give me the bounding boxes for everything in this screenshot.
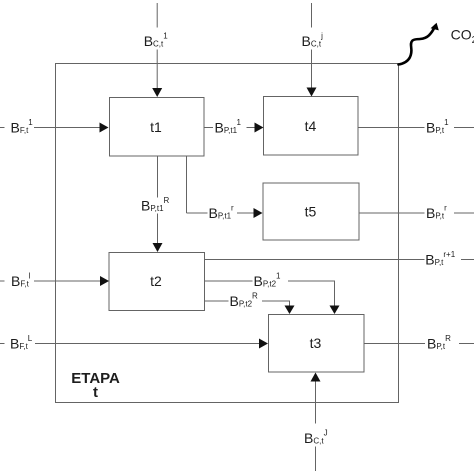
- wire feed into t1: [34, 127, 100, 129]
- arrowhead B_P,t2^R into t3: [285, 306, 295, 315]
- box t2: [109, 253, 205, 311]
- svg-text:t2: t2: [150, 273, 162, 289]
- wire label to t5: [237, 212, 254, 214]
- arrowhead B_P,t2^1 into t3: [330, 306, 340, 315]
- wire t3 right output: [364, 343, 425, 345]
- arrowhead into t4 top: [307, 88, 317, 97]
- wire B_F,t^1 stub at left edge: [0, 127, 5, 129]
- box t5: [263, 183, 359, 240]
- arrowhead into t1 left: [100, 123, 109, 133]
- wire t1 right to label: [204, 127, 213, 129]
- wire B_C,t^1 into t1: [156, 50, 158, 90]
- wire B_P,t^1 to right edge: [454, 127, 474, 129]
- arrowhead into t3 bottom: [311, 373, 321, 382]
- svg-text:t4: t4: [305, 118, 317, 134]
- wire B_P,t^r+1 to right edge: [461, 259, 474, 261]
- svg-text:t1: t1: [150, 119, 162, 135]
- arrowhead into t1 top: [152, 88, 162, 97]
- CO2 squiggle arrow: [399, 26, 436, 65]
- stage boundary box ETAPA t: [56, 64, 399, 403]
- svg-text:t: t: [93, 384, 98, 401]
- svg-text:t5: t5: [305, 204, 317, 220]
- wire B_F,t^l stub at left edge: [0, 280, 5, 282]
- wire t2 output to label B_P,t2^R: [205, 300, 229, 302]
- wire B_C,t^J lower segment: [315, 447, 317, 472]
- arrowhead into t2 left: [100, 276, 109, 286]
- wire B_P,t2^1 into t3 top: [288, 281, 335, 306]
- wire B_F,t^L stub at left edge: [0, 343, 5, 345]
- wire B_C,t^j into t4: [311, 50, 313, 89]
- wire t1 bottom branch down (x=186.5): [186, 156, 188, 213]
- wire recycle into t2 top: [157, 214, 159, 245]
- wire t5 right output: [359, 212, 425, 214]
- arrowhead into t2 top: [153, 243, 163, 252]
- box t4: [264, 97, 359, 156]
- wire t1 bottom recycle down (x=157.5): [157, 156, 159, 198]
- wire t2 output to label B_P,t2^1: [205, 280, 253, 282]
- wire label to t4: [247, 127, 256, 129]
- wire B_P,t^r to right edge: [454, 212, 474, 214]
- box t3: [269, 315, 365, 373]
- wire feed into t2: [34, 280, 101, 282]
- wire B_C,t^J rising into t3 bottom: [315, 381, 317, 424]
- wire B_P,t2^R into t3 top: [262, 301, 290, 306]
- wire t4 right output: [358, 127, 425, 129]
- arrowhead into t3 left: [259, 339, 268, 349]
- wire feed into t3: [35, 343, 260, 345]
- wire B_C,t^j from top edge: [311, 3, 313, 28]
- wire t2 output r+1 row: [205, 259, 425, 261]
- svg-text:t3: t3: [310, 335, 322, 351]
- wire branch to label B_P,t1^r: [187, 212, 208, 214]
- arrowhead into t4 left: [255, 123, 264, 133]
- CO2 arrowhead: [431, 23, 439, 31]
- arrowhead into t5 left: [254, 208, 263, 218]
- box t1: [110, 98, 205, 157]
- wire B_P,t^R to right edge: [459, 343, 474, 345]
- wire B_C,t^1 from top edge: [156, 3, 158, 28]
